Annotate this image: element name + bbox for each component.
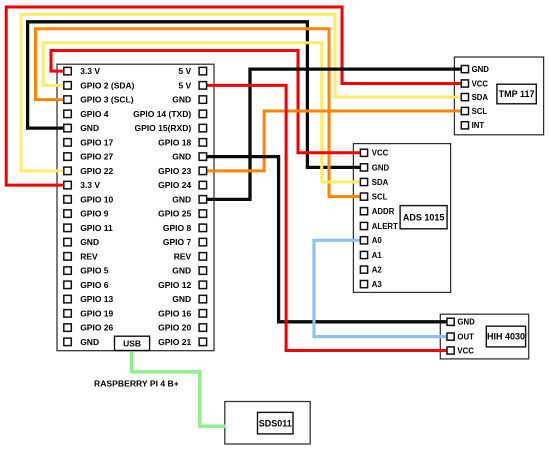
svg-text:VCC: VCC [457,346,474,355]
svg-text:GPIO 8: GPIO 8 [163,223,192,233]
svg-text:ADS 1015: ADS 1015 [403,212,445,222]
pin GPIO 17 (left row 6) [64,137,114,147]
pin TMP 117 SCL [461,107,487,116]
pin TMP 117 INT [461,121,484,130]
svg-text:GPIO 12: GPIO 12 [158,280,191,290]
pin GND (right row 17) [172,294,206,304]
pin ADS 1015 ADDR [360,207,394,216]
svg-text:SDA: SDA [472,93,489,102]
svg-text:GPIO 3 (SCL): GPIO 3 (SCL) [80,95,134,105]
pin 5 V (right row 2) [178,80,206,90]
svg-text:OUT: OUT [457,333,474,342]
pin GPIO 9 (left row 11) [64,209,109,219]
wire GND (right, row 10) to TMP 117 GND, black [206,69,462,199]
pin GPIO 19 (left row 18) [64,308,114,318]
svg-text:REV: REV [80,251,98,261]
label HIH 4030 [486,326,525,347]
svg-text:GPIO 16: GPIO 16 [158,308,191,318]
pin GPIO 27 (left row 7) [64,152,114,162]
svg-text:GPIO 18: GPIO 18 [158,137,191,147]
svg-text:GND: GND [472,65,490,74]
pin ADS 1015 A1 [360,251,382,260]
wire GND (right, row 7) to HIH 4030 GND, black [206,157,448,322]
pin 5 V (right row 1) [178,66,206,76]
svg-text:GPIO 20: GPIO 20 [158,323,191,333]
label TMP 117 [497,84,536,104]
Raspberry Pi 4 B+ GPIO header U1 [57,64,214,351]
svg-text:HIH 4030: HIH 4030 [487,332,525,342]
svg-text:INT: INT [472,121,485,130]
pin HIH 4030 VCC [447,346,474,355]
wire 5V to HIH 4030 VCC, red [206,85,448,350]
svg-text:GPIO 6: GPIO 6 [80,280,109,290]
svg-text:GND: GND [457,318,475,327]
svg-text:GPIO 7: GPIO 7 [163,237,192,247]
pin GPIO 8 (right row 12) [163,223,207,233]
svg-text:GPIO 14 (TXD): GPIO 14 (TXD) [133,109,191,119]
svg-text:VCC: VCC [372,149,389,158]
pin ADS 1015 ALERT [360,222,398,231]
pin GPIO 4 (left row 4) [64,109,109,119]
pin GPIO 13 (left row 17) [64,294,114,304]
pin ADS 1015 VCC [360,149,388,158]
wire 3V3 (pin 1) to ADS 1015 VCC, red [51,51,361,153]
svg-text:5 V: 5 V [178,66,191,76]
pin GPIO 23 (right row 8) [158,166,206,176]
svg-text:A0: A0 [372,236,383,245]
wire USB to SDS011, green [132,351,226,427]
pin GPIO 21 (right row 20) [158,337,206,347]
pin ADS 1015 SDA [360,178,388,187]
pin GPIO 5 (left row 15) [64,266,109,276]
pin GPIO 18 (right row 6) [158,137,206,147]
svg-text:USB: USB [123,338,141,348]
pin GND (left row 20) [64,337,99,347]
wire GPIO 22 to TMP 117 SDA, yellow [21,14,462,171]
pin ADS 1015 SCL [360,193,387,202]
pin GPIO 6 (left row 16) [64,280,109,290]
svg-text:GPIO 9: GPIO 9 [80,209,109,219]
pin GPIO 12 (right row 16) [158,280,206,290]
svg-text:REV: REV [174,251,192,261]
svg-text:ADDR: ADDR [372,207,395,216]
pin 3.3 V (left row 1) [64,66,101,76]
svg-text:GND: GND [172,266,191,276]
pin GPIO 10 (left row 10) [64,194,114,204]
svg-text:GPIO 21: GPIO 21 [158,337,191,347]
pin TMP 117 GND [461,65,489,74]
pin TMP 117 SDA [461,93,488,102]
svg-text:GPIO 26: GPIO 26 [80,323,113,333]
svg-text:3.3 V: 3.3 V [80,66,100,76]
svg-text:GND: GND [172,294,191,304]
svg-text:GPIO 24: GPIO 24 [158,180,191,190]
pin GPIO 14 (TXD) (right row 4) [133,109,206,119]
pin REV (right row 14) [174,251,207,261]
wire 3V3 (pin 17) to TMP 117 VCC, red [6,7,462,185]
wire GND (left) to ADS 1015 GND, black [28,22,361,168]
svg-text:GND: GND [172,194,191,204]
pin ADS 1015 A0 [360,236,382,245]
svg-text:RASPBERRY PI 4 B+: RASPBERRY PI 4 B+ [94,379,179,389]
svg-text:GPIO 25: GPIO 25 [158,209,191,219]
svg-text:GPIO 19: GPIO 19 [80,308,113,318]
svg-text:GND: GND [80,337,99,347]
wire GPIO 2 (SDA) to ADS 1015 SDA, yellow [43,43,361,182]
svg-text:GPIO 5: GPIO 5 [80,266,109,276]
svg-text:GPIO 13: GPIO 13 [80,294,113,304]
label ADS 1015 [400,206,447,229]
pin GND (left row 5) [64,123,99,133]
pin HIH 4030 GND [447,318,475,327]
svg-text:SDA: SDA [372,178,389,187]
pin ADS 1015 A2 [360,266,382,275]
svg-text:GPIO 27: GPIO 27 [80,152,113,162]
svg-text:GND: GND [172,95,191,105]
svg-text:TMP 117: TMP 117 [499,89,535,99]
pin GPIO 3 (SCL) (left row 3) [64,95,134,105]
pin GND (right row 7) [172,152,206,162]
pin HIH 4030 OUT [447,333,474,342]
svg-text:GND: GND [80,237,99,247]
pin GND (right row 3) [172,95,206,105]
temperature sensor TMP 117 module [454,57,543,135]
svg-text:3.3 V: 3.3 V [80,180,100,190]
pin 3.3 V (left row 9) [64,180,101,190]
svg-text:GPIO 11: GPIO 11 [80,223,113,233]
svg-text:VCC: VCC [472,79,489,88]
svg-text:SCL: SCL [472,107,488,116]
pin GPIO 11 (left row 12) [64,223,113,233]
pin GPIO 26 (left row 19) [64,323,114,333]
svg-text:GND: GND [172,152,191,162]
pin GPIO 16 (right row 18) [158,308,206,318]
wire GPIO 23 to TMP 117 SCL, orange [206,111,462,171]
pin GND (right row 15) [172,266,206,276]
pin GPIO 2 (SDA) (left row 2) [64,80,135,90]
svg-text:A1: A1 [372,251,383,260]
svg-text:GPIO 2 (SDA): GPIO 2 (SDA) [80,80,134,90]
svg-text:GPIO 23: GPIO 23 [158,166,191,176]
pin GND (right row 10) [172,194,206,204]
svg-text:5 V: 5 V [178,80,191,90]
svg-text:GPIO 17: GPIO 17 [80,137,113,147]
label SDS011 [258,412,294,434]
pin GND (left row 13) [64,237,99,247]
dust sensor SDS011 module [225,402,310,445]
pin GPIO 25 (right row 11) [158,209,206,219]
pin TMP 117 VCC [461,79,488,88]
pin GPIO 15(RXD) (right row 5) [135,123,207,133]
svg-text:SCL: SCL [372,193,388,202]
svg-text:GND: GND [80,123,99,133]
pin REV (left row 14) [64,251,98,261]
humidity sensor HIH 4030 module [440,314,528,359]
label RASPBERRY PI 4 B+ [94,379,179,389]
wire GPIO 3 (SCL) to ADS 1015 SCL, orange [36,29,362,197]
pin ADS 1015 GND [360,163,389,172]
svg-text:GPIO 15(RXD): GPIO 15(RXD) [135,123,192,133]
svg-text:GPIO 22: GPIO 22 [80,166,113,176]
USB port of Raspberry Pi [115,336,150,350]
svg-text:ALERT: ALERT [372,222,398,231]
wire ADS 1015 A0 to HIH 4030 OUT, blue [314,240,448,336]
pin GPIO 7 (right row 13) [163,237,207,247]
svg-text:GPIO 4: GPIO 4 [80,109,109,119]
svg-text:GND: GND [372,163,390,172]
svg-text:SDS011: SDS011 [259,418,292,428]
pin GPIO 24 (right row 9) [158,180,206,190]
svg-text:A2: A2 [372,266,383,275]
ADC ADS 1015 module [353,144,450,293]
svg-text:GPIO 10: GPIO 10 [80,194,113,204]
pin ADS 1015 A3 [360,280,382,289]
svg-text:A3: A3 [372,280,383,289]
pin GPIO 22 (left row 8) [64,166,114,176]
pin GPIO 20 (right row 19) [158,323,206,333]
